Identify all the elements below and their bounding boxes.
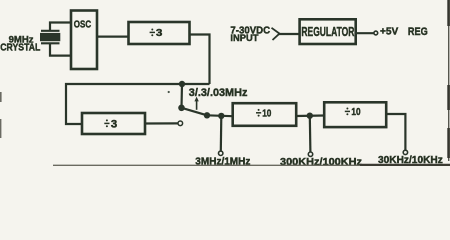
wire U4 output right then down to 30KHz terminal bbox=[386, 114, 405, 150]
svg-text:REGULATOR: REGULATOR bbox=[301, 24, 354, 39]
svg-text:3: 3 bbox=[111, 118, 117, 130]
divider U1 (divide by 3, top) bbox=[129, 22, 190, 44]
terminal 300KHz (open circle) bbox=[308, 152, 312, 156]
wire U1 output right then down bbox=[190, 35, 210, 85]
svg-text:OSC: OSC bbox=[74, 19, 92, 31]
svg-text:CRYSTAL: CRYSTAL bbox=[0, 42, 40, 53]
divider U4 (divide by 10, second) bbox=[324, 102, 386, 127]
svg-text:+5V: +5V bbox=[380, 26, 398, 38]
svg-text:3: 3 bbox=[156, 28, 163, 39]
scan edge artifact: left border bbox=[0, 92, 2, 102]
regulator U5 bbox=[300, 19, 356, 44]
svg-text:REG: REG bbox=[408, 26, 428, 38]
switch S1 arm bbox=[182, 108, 208, 116]
crystal top plate bbox=[41, 30, 60, 32]
switch contact (open circle) bbox=[178, 121, 183, 126]
oscillator box OSC bbox=[71, 11, 97, 70]
node output tap 300KHz bbox=[307, 113, 313, 119]
switch S1 pole bbox=[178, 105, 185, 112]
ink speck bbox=[168, 91, 170, 93]
svg-text:3/.3/.03MHz: 3/.3/.03MHz bbox=[189, 87, 248, 99]
wire crystal bottom lead to OSC bbox=[50, 43, 72, 55]
wire regulator output bbox=[356, 32, 374, 34]
terminal 30KHz (open circle) bbox=[403, 150, 407, 154]
wire switch to divide-by-10 bbox=[207, 114, 233, 117]
terminal +5V (open circle) bbox=[374, 31, 378, 35]
divider U3 (divide by 10, first) bbox=[233, 103, 297, 126]
svg-text:300KHz/100KHz: 300KHz/100KHz bbox=[280, 156, 362, 166]
wire junction down to switch pole bbox=[180, 84, 183, 108]
wire input to regulator bbox=[278, 33, 300, 35]
scan edge artifact: right border bbox=[448, 0, 450, 161]
svg-text:10: 10 bbox=[262, 107, 271, 119]
scan edge artifact: bottom border bbox=[53, 164, 450, 166]
input chevron bbox=[272, 28, 280, 40]
svg-text:INPUT: INPUT bbox=[230, 33, 258, 44]
wire crystal top lead to OSC bbox=[50, 23, 72, 31]
node junction on feedback line bbox=[179, 81, 185, 87]
crystal bottom plate bbox=[41, 42, 60, 44]
divider U2 (divide by 3, bottom) bbox=[82, 113, 145, 134]
crystal X1 leads bbox=[41, 23, 72, 56]
wire down to 300KHz terminal bbox=[309, 116, 312, 153]
node output tap 3MHz bbox=[218, 113, 224, 119]
wire U3 output to U4 bbox=[296, 114, 324, 117]
wire down to 3MHz terminal bbox=[220, 116, 223, 151]
switch arrow indicator bbox=[196, 100, 198, 110]
wire feedback line bbox=[66, 84, 210, 124]
terminal 3MHz (open circle) bbox=[219, 151, 223, 155]
svg-text:3MHz/1MHz: 3MHz/1MHz bbox=[195, 157, 250, 166]
crystal body bbox=[40, 33, 60, 41]
wire U2 output to switch contact bbox=[145, 122, 178, 124]
wire OSC to divide-by-3 bbox=[97, 35, 129, 37]
svg-text:10: 10 bbox=[351, 106, 360, 118]
